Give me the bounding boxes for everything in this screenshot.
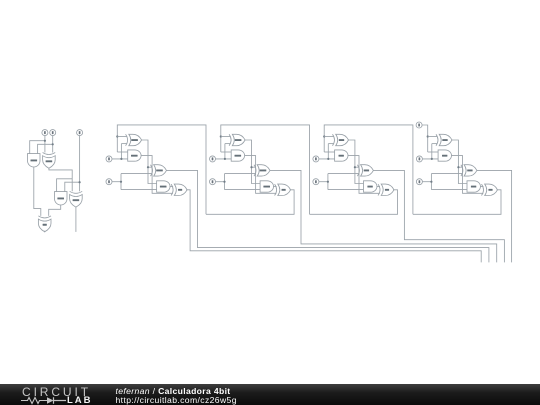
wire block1 to XOR14 upper input [117,136,127,138]
and-gate AND12 [231,150,244,161]
xor-gate XOR7 [357,165,373,176]
wire carry block4 to block3 [413,190,501,215]
junction input 2 [430,181,432,183]
junction block4 carry-in [427,135,429,137]
node B terminal [50,130,56,136]
wire block3 to XOR6 upper input [324,136,334,138]
xor-gate XOR18 [70,191,83,207]
junction input 3 [327,158,329,160]
wire sum block2 [270,170,497,262]
wire AND17 out to OR5 [170,186,173,188]
node input 5 terminal [210,156,216,162]
wire block3 to AND8 upper input [324,151,335,153]
wire input 2 [422,174,468,190]
and-gate AND17 [157,181,170,192]
wire block2 to XOR10 upper input [221,136,231,138]
wire input 5 [216,144,232,159]
junction input 8 [120,181,122,183]
wire AND5 out to OR1 [480,186,483,188]
xor-gate XOR17 [43,153,56,169]
wire AND10 out to OR2 [34,167,41,216]
and-gate AND11 [55,192,68,205]
wire sum block3 [373,170,504,262]
CircuitLab logo word [22,385,91,399]
xor-gate XOR11 [254,165,270,176]
and-gate AND9 [364,181,377,192]
junction XOR6 out [354,166,356,168]
junction input 1 [431,158,433,160]
wire carry block3 to block2 [310,190,398,215]
junction A [44,140,46,142]
xor-gate XOR3 [461,165,477,176]
wire carry loop block2 [221,125,310,214]
wire B to gates [38,136,53,154]
wire sum block1 [167,170,489,262]
wire carry block2 to block1 [206,190,294,215]
wire XOR18 output stub [75,207,77,232]
wire carry loop block1 [117,125,206,214]
wire block4 to XOR2 upper input [428,136,438,138]
wire AND16 out to OR5 [141,156,173,194]
and-gate AND8 [335,150,348,161]
wire XOR2 out [452,140,469,184]
wire input 6 [216,174,262,190]
wire carry loop block3 [324,125,413,214]
node A terminal [42,130,48,136]
or-gate OR3 [378,184,394,195]
wire block4 to AND4 upper input [428,151,439,153]
node Cin terminal [77,130,83,136]
or-gate OR2 [38,216,51,232]
node input 6 terminal [210,179,216,185]
junction block3 carry-in [323,135,325,137]
wire Cin down [65,136,80,192]
or-gate OR5 [171,184,187,195]
junction input 4 [327,181,329,183]
node input 2 terminal [416,179,422,185]
wire A to gates [30,136,45,154]
wire AND4 out to OR1 [451,156,483,194]
logo LAB text [67,395,93,405]
footer bar [0,384,540,405]
xor-gate XOR14 [126,134,142,145]
wire OR2 output stub [44,231,46,233]
junction block1 carry-in [116,135,118,137]
wire Cin0 to block4 [422,125,428,152]
wire AND11 out to OR2 [49,205,61,216]
wire AND9 out to OR3 [377,186,380,188]
wire carry-out block1 [186,190,481,263]
and-gate AND13 [260,181,273,192]
xor-gate XOR10 [229,134,245,145]
node Cin0 terminal [416,122,422,128]
wire AND8 out to OR3 [348,156,380,194]
node input 4 terminal [313,179,319,185]
junction input 6 [223,181,225,183]
junction input 7 [120,158,122,160]
node input 3 terminal [313,156,319,162]
xor-gate XOR15 [151,165,167,176]
junction B [52,143,54,145]
wire AND12 out to OR4 [245,156,277,194]
junction XOR14 out [147,166,149,168]
wire XOR17 out [49,168,72,191]
junction XOR2 out [457,166,459,168]
wire sum block4 [477,170,512,262]
wire XOR10 out [245,140,262,184]
wire input 1 [422,144,438,159]
junction Cin [79,181,81,183]
and-gate AND16 [128,150,141,161]
footer author / title [116,386,231,396]
and-gate AND10 [28,154,41,167]
and-gate AND5 [467,181,480,192]
wire input 4 [319,174,365,190]
node input 8 terminal [106,179,112,185]
or-gate OR4 [275,184,291,195]
junction XOR10 out [250,166,252,168]
logo schematic line: wire, resistor, diode [21,396,71,405]
wire input 7 [112,144,128,159]
wire XOR14 out [142,140,159,184]
footer url [116,395,237,405]
junction block2 carry-in [220,135,222,137]
wire input 8 [112,174,158,190]
wire AND13 out to OR4 [273,186,276,188]
node input 1 terminal [416,156,422,162]
xor-gate XOR6 [333,134,349,145]
xor-gate XOR2 [436,134,452,145]
wire input 3 [319,144,335,159]
wire XOR6 out [349,140,366,184]
wire block2 to AND12 upper input [221,151,232,153]
wire block1 to AND16 upper input [117,151,128,153]
node input 7 terminal [106,156,112,162]
and-gate AND4 [438,150,451,161]
junction input 5 [224,158,226,160]
or-gate OR1 [482,184,498,195]
